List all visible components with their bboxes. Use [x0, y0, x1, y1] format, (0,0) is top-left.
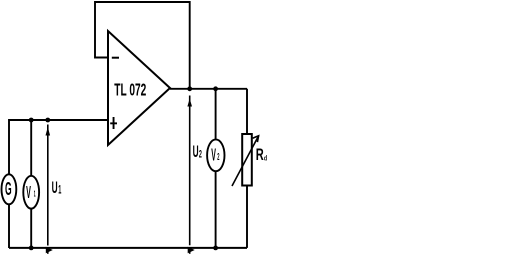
op-amp U1 TL072 [108, 31, 170, 145]
pin + (non-inverting input marker) [110, 117, 117, 129]
wire feedback loop from output to inverting input [95, 2, 190, 89]
wire voltmeter V1 branch [30, 120, 32, 248]
svg-text:G: G [5, 180, 12, 200]
pin - (inverting input marker) [112, 57, 119, 59]
node junction V1 top [29, 118, 34, 123]
voltmeter V1 [23, 176, 39, 209]
node junction V2 bottom [213, 246, 218, 251]
node junction V2 top [213, 86, 218, 91]
voltmeter V2 [207, 139, 224, 171]
wire op-amp output [170, 88, 247, 90]
wire U1 measurement line with up arrow [46, 125, 53, 254]
node junction V1 bottom [29, 246, 34, 251]
wire input from generator to + input [9, 119, 108, 121]
wire voltmeter V2 branch [215, 89, 217, 248]
wire U2 measurement line with up arrow [187, 96, 194, 254]
node junction U1 arrow top [45, 118, 50, 123]
resistor RL (variable) [242, 134, 252, 186]
wire generator branch left vertical [8, 119, 10, 248]
node junction output / feedback [187, 86, 192, 91]
wire bottom rail [9, 247, 247, 249]
wire load branch right vertical [246, 89, 248, 248]
variable arrow through RL [232, 136, 259, 186]
svg-text:TL 072: TL 072 [114, 81, 146, 101]
generator G [1, 174, 16, 204]
